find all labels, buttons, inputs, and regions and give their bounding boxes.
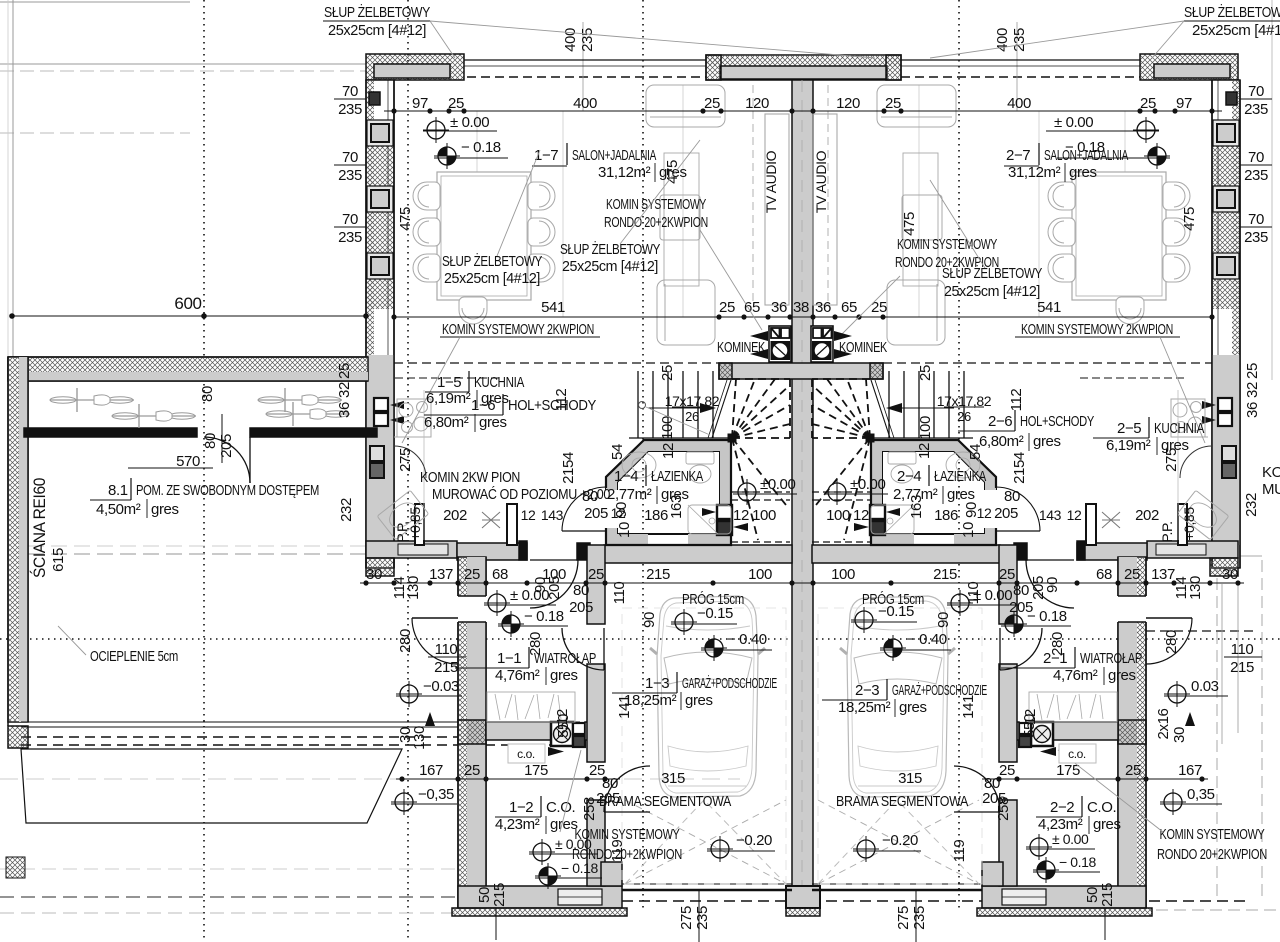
svg-text:2−5: 2−5 (1117, 420, 1141, 437)
svg-text:235: 235 (911, 906, 928, 930)
MARKERS (391, 114, 1228, 889)
door jamb right hol (1014, 543, 1027, 560)
svg-text:112: 112 (1008, 389, 1025, 412)
toilet left (686, 452, 714, 464)
svg-text:110: 110 (611, 582, 628, 605)
svg-text:12: 12 (660, 443, 677, 459)
garage north wall right (812, 545, 1000, 563)
kitchen cooktop right (1171, 399, 1205, 437)
svg-text:280: 280 (1163, 630, 1180, 654)
wiatrolap east wall right unit (1118, 557, 1146, 908)
svg-text:gres: gres (1108, 667, 1136, 684)
svg-text:P.P.: P.P. (394, 521, 410, 542)
svg-text:1−4: 1−4 (614, 468, 638, 485)
svg-text:235: 235 (694, 906, 711, 930)
svg-text:1−1: 1−1 (497, 650, 521, 667)
terrace dashed lines below annex (21, 726, 580, 728)
svg-text:2154: 2154 (560, 452, 577, 484)
dim texts row 541 + fireplace (541, 299, 1061, 316)
DOORS (204, 437, 1212, 812)
svg-text:315: 315 (661, 770, 685, 787)
west wall window 1 (367, 120, 393, 146)
door opening east wall right (1117, 596, 1147, 622)
svg-text:6,19m²: 6,19m² (1106, 437, 1151, 454)
svg-text:90: 90 (641, 612, 658, 628)
svg-text:−0.20: −0.20 (882, 832, 918, 849)
svg-text:− 0.40: − 0.40 (727, 631, 767, 648)
dim row C lines y=779 (396, 778, 620, 780)
thin gray line left top (0, 63, 366, 65)
svg-text:235: 235 (1244, 229, 1268, 246)
stair winder dashed left (732, 379, 790, 540)
annex interior wall (24, 428, 197, 437)
level co left (529, 839, 555, 865)
floor above dashed interior right (883, 362, 1212, 364)
svg-text:SALON+JADALNIA: SALON+JADALNIA (572, 147, 656, 164)
svg-text:6,19m²: 6,19m² (426, 390, 471, 407)
understair dashed left (731, 491, 790, 493)
bathroom vents left (717, 505, 732, 519)
svg-text:KOMIN SYSTEMOWY: KOMIN SYSTEMOWY (897, 236, 997, 253)
svg-text:17x17,82: 17x17,82 (665, 393, 720, 409)
svg-text:gres: gres (550, 667, 578, 684)
garage threshold left (622, 883, 792, 885)
small arrows bottom-left 30 dim (425, 712, 435, 726)
svg-text:10: 10 (960, 522, 977, 538)
svg-text:KOMIN SYSTEMOWY 2KWPION: KOMIN SYSTEMOWY 2KWPION (442, 321, 594, 338)
svg-text:235: 235 (1011, 28, 1028, 52)
understair dashed right (812, 491, 871, 493)
svg-text:202: 202 (1135, 507, 1159, 524)
svg-text:36: 36 (1244, 402, 1261, 418)
svg-text:30: 30 (366, 566, 382, 583)
svg-text:SŁUP ŻELBETOWY: SŁUP ŻELBETOWY (560, 240, 660, 258)
svg-text:± 0.00: ± 0.00 (510, 587, 549, 604)
svg-text:2x16: 2x16 (1155, 708, 1172, 739)
svg-text:70: 70 (1248, 211, 1264, 228)
svg-text:1−5: 1−5 (437, 374, 461, 391)
svg-text:C.O.: C.O. (546, 799, 575, 816)
svg-text:30: 30 (1222, 566, 1238, 583)
annex west wall (8, 357, 28, 722)
svg-text:100: 100 (917, 416, 934, 440)
dashed site lines bottom left (0, 868, 455, 870)
stair winder dashed right (812, 379, 870, 540)
upper south wall left segment A (366, 541, 457, 558)
svg-text:2−7: 2−7 (1006, 147, 1030, 164)
svg-text:70: 70 (342, 211, 358, 228)
svg-text:4,50m²: 4,50m² (96, 501, 141, 518)
svg-text:12: 12 (977, 505, 992, 521)
svg-text:137: 137 (429, 566, 453, 583)
stairwell top wall (719, 363, 883, 379)
level wiatrolap right (947, 590, 973, 616)
light gray horizontal gridline in annex (0, 778, 740, 780)
svg-text:205: 205 (982, 790, 1006, 807)
co/garage west wall right (999, 545, 1017, 624)
dim texts row B (366, 566, 1238, 583)
svg-text:gres: gres (1093, 816, 1121, 833)
svg-text:235: 235 (338, 167, 362, 184)
dim texts row A (412, 95, 1192, 112)
svg-text:232: 232 (338, 498, 355, 522)
svg-text:400: 400 (573, 95, 597, 112)
110/215 fraction right (1224, 656, 1262, 658)
svg-text:12: 12 (521, 507, 536, 523)
svg-text:18,25m²: 18,25m² (838, 699, 891, 716)
svg-text:± 0.00: ± 0.00 (555, 836, 592, 852)
70/235 fraction lines right (1240, 98, 1272, 100)
svg-text:MUROWAĆ OD POZIOMU +2,00: MUROWAĆ OD POZIOMU +2,00 (432, 486, 610, 503)
door annex storage (249, 437, 251, 483)
svg-text:−0.20: −0.20 (736, 832, 772, 849)
svg-text:2,77m²: 2,77m² (607, 486, 652, 503)
svg-text:25: 25 (1244, 363, 1261, 379)
south wall right lower block (982, 886, 1146, 908)
svg-text:275: 275 (678, 906, 695, 930)
svg-text:205: 205 (584, 505, 608, 522)
svg-text:475: 475 (397, 207, 414, 231)
door hol-wiatrolap right (1026, 559, 1074, 561)
svg-text:235: 235 (1244, 101, 1268, 118)
svg-text:12: 12 (1067, 507, 1082, 523)
svg-text:±0.00: ±0.00 (760, 476, 795, 493)
dining table left (437, 172, 531, 300)
svg-text:25: 25 (1125, 762, 1141, 779)
bathroom left unit (606, 440, 748, 545)
dim row B line y=583 (360, 582, 1244, 584)
fireplace right (811, 326, 833, 362)
svg-text:110: 110 (435, 641, 458, 658)
svg-text:25: 25 (464, 566, 480, 583)
svg-text:− 0.18: − 0.18 (1027, 608, 1067, 625)
door east wall right kitchen area (1180, 446, 1212, 478)
svg-text:26: 26 (957, 409, 971, 424)
svg-text:130: 130 (1187, 576, 1204, 600)
svg-text:12: 12 (554, 709, 571, 725)
svg-text:− 0.18: − 0.18 (1059, 854, 1097, 870)
svg-text:215: 215 (434, 659, 458, 676)
svg-text:25: 25 (464, 762, 480, 779)
svg-text:215: 215 (1230, 659, 1254, 676)
svg-text:+0,85: +0,85 (1181, 507, 1197, 541)
top-right corner wall hatched (1140, 54, 1238, 80)
svg-text:2−1: 2−1 (1043, 650, 1067, 667)
south wall left lower block (458, 886, 622, 908)
door west wall left kitchen area (394, 446, 426, 478)
svg-text:54: 54 (609, 444, 626, 460)
top-left corner wall hatched (366, 54, 464, 80)
svg-text:80: 80 (202, 433, 219, 449)
bathroom washbasin right (946, 452, 980, 478)
svg-text:130: 130 (405, 576, 422, 600)
svg-text:WIATROŁAP: WIATROŁAP (1080, 650, 1142, 667)
asterisk marks kitchens (482, 512, 500, 528)
chairs left table (413, 182, 440, 210)
svg-text:205: 205 (994, 505, 1018, 522)
svg-text:70: 70 (1248, 83, 1264, 100)
110/215 fraction left (428, 656, 466, 658)
svg-text:120: 120 (836, 95, 860, 112)
svg-text:25x25cm [4#1: 25x25cm [4#1 (1192, 22, 1280, 39)
svg-text:−0.15: −0.15 (697, 605, 733, 622)
svg-text:12: 12 (1022, 709, 1039, 725)
dotted site axis vertical x=959 (958, 0, 960, 912)
svg-text:97: 97 (412, 95, 428, 112)
svg-text:36: 36 (336, 402, 353, 418)
svg-text:−0,35: −0,35 (418, 786, 454, 803)
divider wall wiatrolap/co right (1053, 722, 1118, 740)
dotted site axis vertical x=643 (642, 0, 644, 912)
svg-text:137: 137 (1151, 566, 1175, 583)
svg-text:RONDO 20+2KWPION: RONDO 20+2KWPION (1157, 846, 1267, 863)
east wall kitchen vents (1218, 398, 1232, 411)
cupboard left (664, 153, 699, 286)
kitchen chimney stubs right (1086, 504, 1096, 545)
svg-text:315: 315 (898, 770, 922, 787)
top wall thin lintel left (464, 59, 706, 61)
stair flight right unit (871, 371, 973, 438)
svg-text:2,77m²: 2,77m² (893, 486, 938, 503)
svg-text:17x17,82: 17x17,82 (937, 393, 992, 409)
svg-text:18,25m²: 18,25m² (624, 692, 677, 709)
divider wall wiatrolap/co left (486, 722, 551, 740)
svg-text:BRAMA SEGMENTOWA: BRAMA SEGMENTOWA (599, 793, 731, 810)
dim row A line y=111 (384, 110, 1222, 112)
east wall window 3 (1213, 253, 1239, 279)
svg-text:2−3: 2−3 (855, 682, 879, 699)
svg-text:KOMIN SYSTEMOWY 2KWPION: KOMIN SYSTEMOWY 2KWPION (1021, 321, 1173, 338)
garage dashed outline left (622, 608, 786, 884)
level terrace left (391, 789, 417, 815)
svg-text:32: 32 (336, 382, 353, 398)
svg-text:215: 215 (491, 883, 508, 907)
level garage bottom right (853, 836, 879, 862)
level co right (1026, 834, 1052, 860)
svg-text:25: 25 (1140, 95, 1156, 112)
svg-text:± 0.00: ± 0.00 (450, 114, 489, 131)
svg-text:BRAMA SEGMENTOWA: BRAMA SEGMENTOWA (836, 793, 968, 810)
svg-text:SŁUP ŻELBETOWY: SŁUP ŻELBETOWY (442, 252, 542, 270)
svg-text:100: 100 (826, 507, 850, 524)
east wall window 2 (1213, 186, 1239, 212)
dots row C (399, 776, 404, 781)
svg-text:100: 100 (659, 416, 676, 440)
svg-text:120: 120 (745, 95, 769, 112)
svg-text:4,76m²: 4,76m² (495, 667, 540, 684)
svg-text:80: 80 (1013, 582, 1029, 599)
svg-text:−0.15: −0.15 (878, 603, 914, 620)
tv cabinet right (813, 114, 837, 305)
sofa left unit (646, 85, 725, 127)
svg-text:gres: gres (1033, 433, 1061, 450)
svg-text:167: 167 (419, 762, 443, 779)
svg-text:KOMIN SYSTEMOWY: KOMIN SYSTEMOWY (1160, 826, 1265, 843)
svg-text:232: 232 (1243, 493, 1260, 517)
svg-text:205: 205 (218, 434, 235, 458)
svg-text:25: 25 (336, 363, 353, 379)
svg-text:119: 119 (951, 840, 968, 863)
svg-text:38: 38 (793, 299, 809, 316)
svg-text:± 0.00: ± 0.00 (1052, 831, 1089, 847)
dots row B (363, 580, 368, 585)
svg-text:KUCHNIA: KUCHNIA (474, 374, 524, 391)
east exterior wall (1212, 80, 1240, 568)
svg-text:475: 475 (1181, 207, 1198, 231)
garage north wall left (604, 545, 792, 563)
svg-text:12: 12 (611, 505, 626, 521)
svg-text:2−2: 2−2 (1050, 799, 1074, 816)
svg-text:gres: gres (659, 164, 687, 181)
svg-text:TV AUDIO: TV AUDIO (813, 150, 829, 213)
svg-text:186: 186 (644, 507, 668, 524)
svg-text:275: 275 (397, 448, 414, 472)
svg-text:70: 70 (342, 83, 358, 100)
svg-text:205: 205 (1030, 576, 1047, 600)
svg-text:25: 25 (719, 299, 735, 316)
STAIRS (629, 371, 973, 542)
door bathroom left (603, 490, 619, 528)
stair flight left unit (629, 371, 731, 438)
svg-text:6,80m²: 6,80m² (424, 414, 469, 431)
svg-text:OCIEPLENIE 5cm: OCIEPLENIE 5cm (90, 648, 178, 665)
svg-text:− 0.18: − 0.18 (561, 860, 599, 876)
svg-text:80: 80 (199, 386, 216, 402)
bathroom washbasin left (622, 452, 656, 478)
svg-text:30: 30 (1171, 727, 1188, 743)
upper south wall right segment A (1147, 541, 1238, 558)
annex top wall (8, 357, 368, 381)
svg-text:570: 570 (176, 453, 200, 470)
svg-text:GARAŻ+PODSCHODZIE: GARAŻ+PODSCHODZIE (892, 681, 987, 699)
level salon left (423, 117, 449, 143)
stair up arrow left (648, 407, 700, 409)
top wall thin lintel right (901, 59, 1140, 61)
level garage top left (671, 609, 697, 635)
svg-text:gres: gres (479, 414, 507, 431)
svg-text:143: 143 (541, 507, 564, 523)
svg-text:25x25cm [4#12]: 25x25cm [4#12] (328, 22, 426, 39)
svg-text:186: 186 (934, 507, 958, 524)
svg-text:− 0.18: − 0.18 (461, 139, 501, 156)
svg-text:10: 10 (616, 522, 633, 538)
svg-text:90: 90 (935, 612, 952, 628)
svg-text:475: 475 (901, 212, 918, 236)
svg-text:25: 25 (659, 365, 676, 381)
cupboard right (903, 153, 938, 286)
level wiatrolap left (484, 590, 510, 616)
svg-text:80: 80 (573, 582, 589, 599)
dim 600 annex (12, 315, 366, 317)
level terrace right (1160, 789, 1186, 815)
svg-text:GARAŻ+PODSCHODZIE: GARAŻ+PODSCHODZIE (682, 674, 777, 692)
svg-text:WIATROŁAP: WIATROŁAP (534, 650, 596, 667)
misc horizontal small dims (176, 393, 1254, 807)
svg-text:68: 68 (492, 566, 508, 583)
car right garage (840, 596, 955, 797)
17x fraction left (672, 406, 712, 408)
svg-text:130: 130 (411, 726, 428, 750)
svg-text:25x25cm [4#12]: 25x25cm [4#12] (444, 270, 540, 287)
dotted site axis horizontal y=639 (0, 638, 1280, 640)
west exterior wall (366, 80, 394, 568)
toilet right (888, 452, 916, 464)
svg-text:541: 541 (541, 299, 565, 316)
dashed lines right side (1216, 560, 1218, 901)
svg-text:400: 400 (1007, 95, 1031, 112)
svg-text:215: 215 (646, 566, 670, 583)
svg-text:± 0.00: ± 0.00 (973, 587, 1012, 604)
svg-text:1−6: 1−6 (471, 397, 495, 414)
floor above dashed interior left (394, 362, 719, 364)
kitchen tilted sink left (377, 490, 429, 539)
svg-text:KOMIN SYSTEMOWY: KOMIN SYSTEMOWY (606, 196, 706, 213)
svg-text:gres: gres (151, 501, 179, 518)
west wall window 3 (367, 253, 393, 279)
shower left (688, 505, 731, 534)
svg-text:HOL+SCHODY: HOL+SCHODY (1020, 413, 1094, 430)
svg-text:100: 100 (748, 566, 772, 583)
bottom dim verticals (495, 908, 497, 940)
svg-text:275: 275 (895, 906, 912, 930)
svg-text:12: 12 (916, 443, 933, 459)
upper south wall right segment B (1077, 543, 1147, 560)
sofa right unit (877, 85, 956, 127)
chairs right table (1048, 182, 1075, 210)
kitchen tilted sink right (1177, 490, 1229, 539)
upper south wall left segment B (457, 543, 527, 560)
svg-text:25: 25 (448, 95, 464, 112)
svg-text:1−3: 1−3 (645, 675, 669, 692)
svg-text:600: 600 (174, 294, 201, 313)
svg-text:2−4: 2−4 (897, 468, 921, 485)
svg-text:36: 36 (771, 299, 787, 316)
door hol-wiatrolap left (530, 559, 578, 561)
svg-text:± 0.00: ± 0.00 (1054, 114, 1093, 131)
svg-text:541: 541 (1037, 299, 1061, 316)
svg-text:KUCHNIA: KUCHNIA (1154, 420, 1204, 437)
svg-text:65: 65 (841, 299, 857, 316)
svg-text:POM. ZE SWOBODNYM DOSTĘPEM: POM. ZE SWOBODNYM DOSTĘPEM (136, 482, 319, 499)
dim texts row C (419, 762, 1202, 779)
svg-text:8.1: 8.1 (108, 482, 128, 499)
level garage top right (851, 607, 877, 633)
svg-text:32: 32 (1244, 382, 1261, 398)
west wall kitchen vents (374, 398, 388, 411)
svg-text:0,35: 0,35 (1187, 786, 1215, 803)
FURNITURE (50, 85, 1229, 884)
dim row 541/fireplace y=317 (394, 316, 1214, 318)
70/235 fraction lines left (334, 98, 366, 100)
dotted site axis vertical x=204 (203, 0, 205, 942)
co boiler tag right (1059, 744, 1096, 763)
level stairs left (734, 479, 760, 505)
top wall center segment (706, 55, 901, 80)
level annex side right (1164, 681, 1190, 707)
svg-text:−0.03: −0.03 (423, 678, 459, 695)
svg-text:280: 280 (397, 629, 414, 653)
door wiatrolap east right (999, 628, 1001, 670)
stair up arrow right (902, 407, 954, 409)
door wiatrolap east left (603, 628, 605, 670)
east wall window 1 (1213, 120, 1239, 146)
svg-text:25: 25 (704, 95, 720, 112)
svg-text:4,76m²: 4,76m² (1053, 667, 1098, 684)
svg-text:215: 215 (933, 566, 957, 583)
dashed under garages floor above (606, 550, 998, 552)
svg-text:36: 36 (815, 299, 831, 316)
svg-text:25: 25 (588, 566, 604, 583)
